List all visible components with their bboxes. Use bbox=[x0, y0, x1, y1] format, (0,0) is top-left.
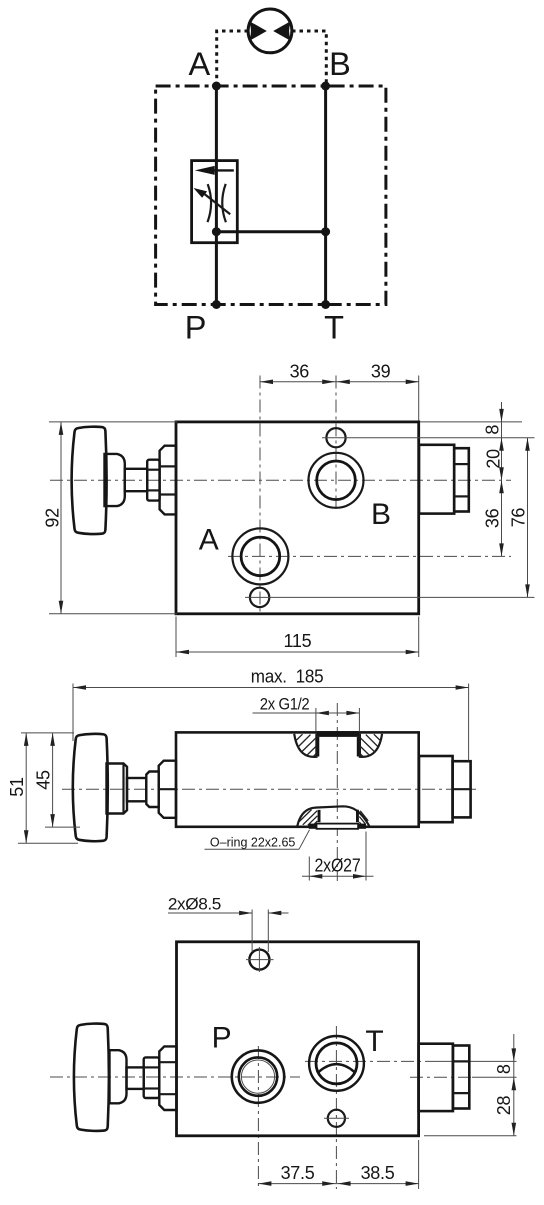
wire dotted B-to-motor bbox=[292, 31, 326, 84]
motor M1 right arrow bbox=[273, 21, 291, 41]
port P inner bbox=[239, 1057, 277, 1095]
svg-text:2xØ8.5: 2xØ8.5 bbox=[168, 895, 221, 913]
wire dotted A-to-motor bbox=[217, 31, 248, 84]
svg-text:2xØ27: 2xØ27 bbox=[315, 855, 361, 875]
extension lines right side front bbox=[420, 421, 522, 423]
lock nut small side bbox=[146, 772, 158, 808]
centerline vertical port A bbox=[259, 376, 261, 613]
port P outer bbox=[232, 1050, 284, 1102]
stem front bbox=[125, 469, 147, 491]
bottom port boss dome bbox=[297, 806, 369, 826]
centerline horizontal axis front bbox=[50, 479, 511, 481]
bottom port right hatch bbox=[360, 811, 368, 821]
port A outer bbox=[232, 528, 288, 584]
junction node T bbox=[321, 300, 330, 309]
dimension 37.5 38.5 bottom bbox=[418, 1140, 420, 1189]
junction node valve outlet bbox=[212, 227, 221, 236]
hex nut big front bbox=[160, 446, 176, 515]
mounting hole above B bbox=[326, 428, 345, 447]
centerline connector axis bbox=[410, 1076, 472, 1078]
svg-text:8: 8 bbox=[483, 425, 503, 435]
stem bottom view bbox=[127, 1067, 144, 1089]
port T seat arc bbox=[319, 1064, 354, 1072]
top port left wall bbox=[316, 737, 319, 757]
dimension 92 left bbox=[49, 421, 177, 423]
body front bbox=[176, 422, 419, 614]
centerline horizontal port A bbox=[228, 555, 511, 557]
svg-text:max. 185: max. 185 bbox=[251, 667, 324, 687]
dimension max 185 bbox=[72, 684, 74, 742]
knob collar side bbox=[107, 764, 128, 814]
motor M1 left arrow bbox=[249, 21, 267, 41]
hex nut big bottom view bbox=[159, 1046, 176, 1110]
dimension 8 20 36 right bbox=[501, 402, 503, 556]
dimension 8 and 28 right bottom view bbox=[424, 1135, 517, 1137]
svg-text:O–ring 22x2.65: O–ring 22x2.65 bbox=[210, 835, 296, 849]
centerline horizontal axis side bbox=[62, 788, 476, 790]
svg-text:P: P bbox=[185, 310, 207, 346]
subplate boundary dash-dot box bbox=[156, 86, 386, 305]
FC1 throttle arc left bbox=[208, 184, 212, 222]
centerline vertical P bbox=[257, 1046, 259, 1189]
body side bbox=[176, 732, 419, 826]
top port G1/2 thread bar bbox=[317, 731, 360, 737]
svg-text:P: P bbox=[212, 1021, 232, 1054]
O-ring groove plate bbox=[317, 824, 359, 829]
knob bottom view bbox=[74, 1024, 109, 1131]
O-ring section left bbox=[309, 824, 317, 829]
svg-text:92: 92 bbox=[43, 508, 63, 528]
stem side bbox=[127, 778, 146, 801]
motor M1 circle bbox=[248, 9, 292, 53]
port B outer bbox=[309, 453, 364, 508]
connector step bottom view bbox=[419, 1044, 453, 1111]
wire B-T vertical bbox=[324, 86, 327, 305]
lock nut small bottom view bbox=[144, 1057, 160, 1098]
FC1 adjustment arrow bbox=[204, 193, 231, 214]
svg-text:A: A bbox=[199, 524, 219, 557]
svg-text:45: 45 bbox=[34, 770, 54, 790]
port B inner bbox=[317, 461, 356, 500]
wire valve-to-T horizontal bbox=[216, 230, 325, 233]
svg-text:T: T bbox=[324, 310, 344, 346]
centerline vertical port B bbox=[335, 376, 337, 509]
dimension 115 bottom bbox=[175, 617, 177, 658]
dimension 45 left bbox=[45, 826, 80, 828]
centerline vertical T bbox=[335, 1026, 337, 1189]
svg-text:76: 76 bbox=[509, 508, 529, 528]
svg-text:8: 8 bbox=[494, 1064, 514, 1074]
dimension 2x G1/2 bbox=[315, 708, 317, 732]
junction node P bbox=[212, 300, 221, 309]
svg-text:38.5: 38.5 bbox=[361, 1163, 395, 1183]
top port left spot-face lobe bbox=[294, 734, 316, 757]
connector cap front bbox=[454, 448, 469, 511]
centerline vertical ports side bbox=[336, 703, 338, 881]
dimension 2xD8.5 bbox=[251, 910, 253, 953]
svg-text:36: 36 bbox=[290, 362, 310, 382]
svg-text:2x G1/2: 2x G1/2 bbox=[260, 696, 310, 714]
svg-text:28: 28 bbox=[494, 1096, 514, 1116]
dimension 51 left bbox=[21, 732, 74, 734]
O-ring section right bbox=[358, 824, 366, 829]
bottom port left hatch bbox=[299, 810, 311, 822]
FC1 free-flow arrow bbox=[213, 169, 234, 171]
mounting hole below A bbox=[250, 588, 269, 607]
dimension 36 39 top bbox=[260, 381, 419, 383]
svg-text:115: 115 bbox=[284, 631, 312, 651]
lock nut small front bbox=[147, 460, 159, 501]
dimension 2xD27 bbox=[308, 857, 310, 881]
svg-text:37.5: 37.5 bbox=[281, 1163, 315, 1183]
knob collar bottom view bbox=[110, 1050, 127, 1103]
top port right spot-face lobe bbox=[360, 734, 382, 757]
bottom port right wall bbox=[356, 810, 359, 823]
svg-text:39: 39 bbox=[371, 362, 391, 382]
connector step front bbox=[419, 445, 454, 514]
junction node B bbox=[321, 82, 330, 91]
svg-text:B: B bbox=[329, 46, 351, 82]
knob front bbox=[72, 427, 107, 534]
connector step side bbox=[419, 756, 453, 822]
centerline horizontal axis bottom view P bbox=[50, 1076, 300, 1078]
junction node A bbox=[212, 82, 221, 91]
port T outer bbox=[309, 1036, 364, 1091]
FC1 throttle arc right bbox=[222, 184, 226, 222]
svg-text:T: T bbox=[365, 1025, 383, 1058]
svg-text:51: 51 bbox=[7, 777, 27, 797]
port T inner bbox=[316, 1043, 357, 1084]
centerline horizontal T bbox=[305, 1060, 425, 1062]
dimension 76 right bbox=[527, 438, 529, 598]
knob collar front bbox=[105, 454, 125, 506]
port P thread bbox=[241, 1060, 274, 1093]
mounting hole below T bbox=[328, 1110, 345, 1127]
svg-text:B: B bbox=[371, 498, 391, 531]
body bottom view bbox=[177, 942, 419, 1136]
flow control valve FC1 body bbox=[192, 161, 238, 243]
top port right wall bbox=[357, 737, 360, 757]
svg-text:36: 36 bbox=[483, 508, 503, 528]
junction node T-branch bbox=[321, 227, 330, 236]
svg-text:A: A bbox=[189, 46, 211, 82]
connector cap bottom view bbox=[453, 1046, 469, 1109]
knob side bbox=[73, 734, 108, 841]
svg-text:20: 20 bbox=[484, 449, 504, 469]
wire A-P vertical bbox=[215, 86, 218, 305]
connector cap side bbox=[453, 761, 471, 817]
bottom port left wall bbox=[318, 810, 321, 822]
mounting hole top (2xD8.5) bbox=[249, 950, 269, 970]
port A inner bbox=[241, 537, 280, 576]
hex nut big side bbox=[159, 761, 176, 818]
